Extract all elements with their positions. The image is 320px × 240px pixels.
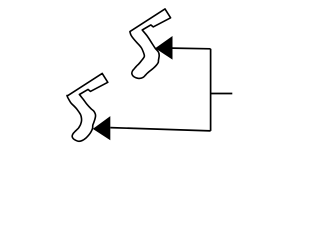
wire stub (right node) [211,93,233,95]
arrowhead A2 (bottom, pointing left at S2) [93,116,111,140]
wire bottom: corner left to arrowhead A2 base [110,128,210,131]
symbol S2 (bottom stocking outline) [67,73,108,141]
wire right vertical [210,49,212,131]
arrowhead A1 (top, pointing left at S1) [155,36,172,60]
symbol S1 (top stocking outline) [130,9,171,79]
wire top: from arrowhead A1 base right to corner [173,47,211,50]
